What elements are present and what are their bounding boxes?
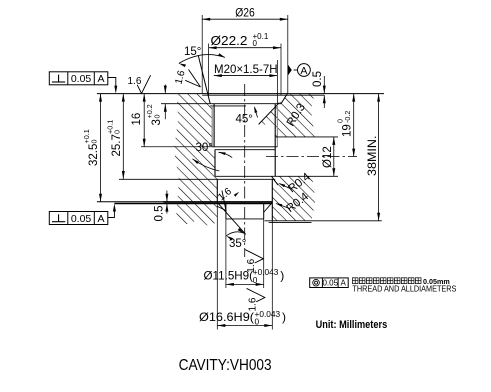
svg-text:Ø22.2: Ø22.2 [211, 34, 248, 48]
30deg angle arc lower [192, 159, 219, 171]
dimension 0.5 bottom left [166, 191, 168, 202]
svg-text:A: A [98, 73, 105, 85]
15 deg chamfer right [281, 94, 287, 104]
svg-text:25.7: 25.7 [111, 134, 123, 156]
feature control frame perpendicularity 0.05 A (top left) [49, 72, 108, 85]
cavity floor thick part [163, 201, 272, 203]
hatched section, left body [174, 94, 217, 226]
ext line dia11.5 left [225, 219, 227, 288]
dimension 19 0/-0.2 [353, 94, 355, 157]
top face line [97, 93, 384, 95]
side port top edge [276, 136, 338, 138]
thread bore wall right (minor dia) [274, 104, 276, 177]
radius label R0.4 lower [277, 204, 290, 209]
svg-text:0.05: 0.05 [71, 213, 92, 225]
svg-text:Unit: Millimeters: Unit: Millimeters [316, 319, 388, 331]
svg-text:1.6: 1.6 [247, 297, 258, 311]
roughness 1.6 on top face [128, 75, 151, 93]
thread major dia line right [276, 106, 278, 147]
svg-text:0: 0 [89, 140, 98, 144]
svg-text:0: 0 [113, 130, 122, 134]
svg-text:3: 3 [151, 119, 163, 125]
hatched section, right body above side hole [259, 94, 315, 137]
45deg leader [255, 108, 258, 117]
svg-text:0: 0 [152, 115, 161, 119]
FCF leader bottom left [108, 207, 115, 218]
vertical centerline (part axis) [244, 84, 246, 257]
bottom seat face line (0.5 step) [114, 203, 272, 205]
ext line dia22.2 right [280, 44, 282, 96]
hatched section, right body below side hole [272, 176, 315, 221]
feature control frame perpendicularity 0.05 A (bottom left) [49, 212, 108, 225]
cavity floor line [97, 201, 272, 203]
dimension dia12 side port [333, 137, 335, 176]
35 deg taper left (extended for angle dim) [217, 203, 245, 235]
dimension 32.5 +0.1/0 [100, 94, 102, 202]
horizontal centerline (side port) [266, 156, 357, 158]
thread major dia line left [211, 106, 213, 147]
svg-text:38MIN.: 38MIN. [367, 136, 379, 177]
ext line thread right [276, 60, 278, 104]
cavity lower wall right (dia16.6) [271, 179, 273, 221]
ext line dia22.2 left [208, 44, 210, 96]
svg-text:1.6: 1.6 [246, 258, 257, 272]
note chinese text (blocky glyph substitutes) [352, 278, 358, 284]
feature control frame concentricity 0.05 A (note) [310, 278, 349, 288]
svg-text:0: 0 [253, 275, 258, 285]
thread bottom line 2 [215, 149, 275, 151]
bore step / side port bottom line [215, 175, 338, 177]
svg-text:A: A [300, 65, 307, 77]
recessed top face (0.5 step) [202, 94, 324, 96]
corner chamfer right of step [272, 176, 278, 185]
ext line for 16 [141, 146, 212, 148]
dia11.5 wall left [225, 203, 227, 219]
roughness 1.6 at dia11.5 [245, 250, 263, 273]
bottom face second line [269, 221, 312, 223]
dia11.5 bottom line [226, 218, 264, 220]
roughness 1.6 at dia16.6 [247, 288, 265, 311]
dimension 3 +0.2/0 [164, 85, 166, 94]
datum feature triangle [288, 65, 292, 76]
dimension dia26 [202, 18, 288, 20]
dimension dia16.6H9 +0.043/0 [217, 325, 272, 327]
svg-text:0: 0 [253, 39, 258, 48]
ext line dia11.5 right [263, 219, 265, 288]
svg-text:30°: 30° [196, 142, 213, 154]
svg-text:0.5: 0.5 [312, 71, 324, 87]
seat ledge line (25.7 level) [119, 178, 275, 180]
svg-text:A: A [340, 279, 346, 288]
svg-text:16: 16 [131, 113, 143, 126]
dia11.5 wall right [263, 203, 265, 219]
datum leader [294, 69, 298, 71]
dimension 38MIN. [378, 94, 380, 221]
svg-text:0.5: 0.5 [153, 206, 165, 222]
FCF leader top left [108, 78, 116, 91]
svg-text:): ) [280, 269, 284, 283]
svg-text:THREAD AND ALLDIAMETERS: THREAD AND ALLDIAMETERS [352, 284, 456, 294]
35deg angle arc [226, 232, 244, 236]
svg-text:45°: 45° [236, 114, 253, 126]
second recess line [210, 105, 246, 107]
radius label R0.4 upper [280, 184, 292, 189]
svg-text:M20×1.5-7H: M20×1.5-7H [214, 62, 278, 76]
35 deg taper right [264, 203, 273, 213]
dimension dia22.2 +0.1/0 [209, 47, 281, 49]
dimension 25.7 +0.1/0 [122, 94, 124, 179]
svg-text:15°: 15° [184, 46, 201, 58]
svg-text:A: A [98, 213, 105, 225]
dimension 0.5 top right [323, 76, 325, 94]
svg-text:19: 19 [341, 124, 353, 137]
thread bore wall left (minor dia) [213, 104, 215, 147]
ext line dia26 left [201, 15, 203, 94]
ext line dia16.6 right [271, 221, 273, 330]
15 deg chamfer left (extended up for angle dim) [198, 55, 210, 103]
15deg angle arc [179, 55, 225, 64]
svg-text:32.5: 32.5 [88, 144, 100, 166]
svg-text:-0.2: -0.2 [343, 111, 352, 123]
bottom face line right [265, 220, 382, 222]
ext line dia26 right / datum [287, 15, 289, 94]
thread bottom line 1 [212, 146, 277, 148]
roughness 1.6 on 35deg taper [211, 186, 239, 213]
svg-text:0.05: 0.05 [322, 279, 338, 288]
dimension 16 [143, 94, 145, 147]
svg-text:Ø26: Ø26 [235, 6, 255, 20]
lower bore wall left [214, 150, 216, 177]
svg-text:CAVITY:VH003: CAVITY:VH003 [179, 357, 272, 374]
45 deg thread-entry chamfer [259, 103, 280, 125]
svg-text:): ) [282, 310, 286, 324]
30deg angle arc upper [219, 152, 233, 157]
svg-text:Ø12: Ø12 [322, 146, 334, 168]
cavity lower wall left (dia16.6) [216, 179, 218, 202]
svg-text:1.6: 1.6 [128, 76, 142, 87]
roughness 1.6 on 15deg chamfer [185, 70, 200, 88]
svg-text:Ø16.6H9(: Ø16.6H9( [199, 310, 254, 324]
dimension dia11.5H9 +0.043/0 [226, 283, 264, 285]
svg-text:0.05: 0.05 [71, 73, 92, 85]
datum circle A [298, 64, 311, 77]
svg-text:0: 0 [255, 316, 260, 326]
counterbore bottom line (dia22.2 recess, ext for 3 dim) [161, 103, 281, 105]
ext line dia16.6 left [216, 202, 218, 330]
